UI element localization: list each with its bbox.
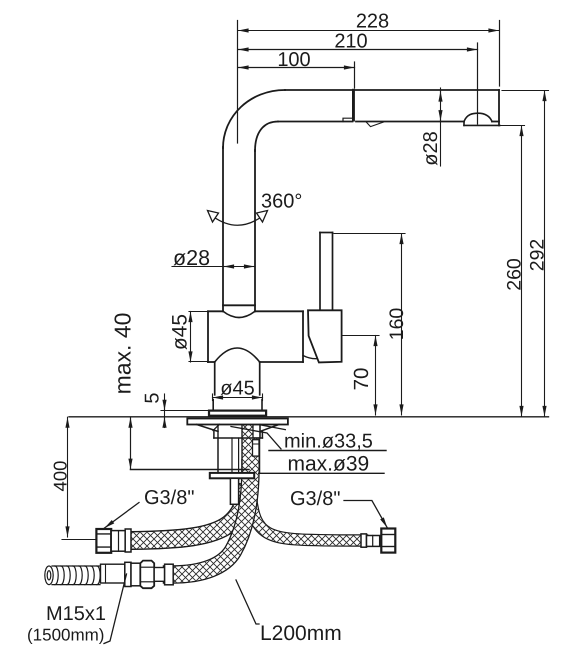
M15 collar [165, 564, 174, 585]
G3/8 left ferrule [125, 529, 131, 552]
countertop underside line [131, 469, 250, 471]
spout inner curve [255, 122, 278, 152]
skirt slant right [260, 425, 279, 432]
leader M15x1 [104, 574, 127, 644]
svg-text:400: 400 [50, 461, 71, 492]
shank through disk [218, 425, 260, 439]
svg-text:min.ø33,5: min.ø33,5 [284, 431, 373, 453]
sprayhead joint thick line [352, 89, 355, 122]
handle housing [308, 310, 342, 362]
skirt slant left [197, 425, 218, 432]
dim phi45 base [213, 394, 263, 401]
M15 hex nut [140, 561, 154, 589]
ext line 228 right [499, 21, 501, 87]
faucet base plate [209, 411, 266, 416]
underline max [259, 472, 384, 474]
dim 210 [238, 49, 478, 51]
svg-text:5: 5 [142, 392, 164, 403]
svg-text:70: 70 [350, 368, 373, 391]
underline min [269, 450, 386, 452]
svg-text:(1500mm): (1500mm) [27, 626, 104, 645]
saddle arc on body top [223, 311, 255, 317]
dim 228 [238, 30, 499, 32]
svg-text:max. 40: max. 40 [110, 313, 136, 395]
svg-text:ø45: ø45 [169, 314, 192, 350]
base column [215, 362, 260, 395]
spout right end cap [498, 90, 500, 125]
svg-text:L200mm: L200mm [260, 622, 342, 645]
ext line 210 right [477, 43, 479, 124]
countertop surface line [69, 416, 549, 418]
dim 260 [499, 126, 525, 417]
spout bottom edge [278, 121, 353, 123]
mounting nut under counter [210, 473, 254, 478]
hose column in shank [242, 425, 259, 474]
handle rod [320, 233, 333, 311]
dim phi28 horizontal at riser [172, 266, 255, 268]
base collar [213, 400, 262, 411]
intersection arc body bottom [215, 348, 260, 362]
clip under tube [343, 118, 352, 121]
hose left supply braided [131, 494, 246, 541]
set screw in shank [253, 425, 261, 457]
leader G3/8 left [105, 503, 140, 529]
ext line 100 right [354, 62, 356, 88]
leader min phi33.5 [231, 427, 281, 450]
svg-text:292: 292 [527, 239, 549, 272]
svg-text:210: 210 [334, 31, 367, 53]
G3/8 right ferrule [361, 534, 367, 547]
spout outer curve [223, 90, 285, 148]
svg-text:G3/8": G3/8" [144, 487, 194, 509]
svg-text:G3/8": G3/8" [290, 488, 340, 510]
leader L200mm [236, 580, 259, 624]
svg-text:ø28: ø28 [420, 131, 442, 165]
G3/8 right connector nut [381, 529, 395, 553]
svg-text:360°: 360° [261, 191, 302, 213]
M15 small cylinder [154, 568, 164, 582]
swivel arc 360 [208, 211, 268, 226]
svg-text:M15x1: M15x1 [46, 603, 106, 625]
dim 160 [334, 234, 405, 416]
svg-text:160: 160 [386, 308, 408, 341]
dim 70 [343, 336, 379, 416]
corrugated hose 1500mm [45, 566, 100, 585]
G3/8 left connector spacer [111, 531, 125, 552]
aerator dome [464, 113, 492, 121]
body horizontal cylinder [208, 311, 303, 362]
ext line spout axis [237, 21, 239, 144]
detail tick under tube [366, 122, 384, 127]
collar box under skirt [214, 431, 263, 438]
escutcheon disk on counter [187, 419, 288, 425]
svg-text:260: 260 [504, 258, 526, 291]
hose right supply braided [251, 498, 362, 541]
dim 100 [238, 67, 355, 69]
leader G3/8 right [344, 501, 387, 528]
dim phi45 body vertical [189, 312, 207, 363]
dim phi28 vertical at spout end [440, 88, 442, 166]
dim 400 [62, 417, 96, 539]
svg-text:228: 228 [356, 11, 389, 33]
threaded stud [230, 478, 238, 504]
svg-text:max.ø39: max.ø39 [288, 453, 370, 476]
tube joint line at body [223, 304, 255, 306]
spout top edge [285, 89, 499, 91]
dim 292 [502, 91, 549, 417]
dim max40 counter thickness [130, 417, 132, 469]
shank tube walls [218, 438, 260, 473]
svg-text:ø28: ø28 [173, 246, 210, 270]
handle housing bottom arc [303, 356, 317, 359]
M15 rings [125, 562, 131, 586]
svg-text:100: 100 [277, 49, 310, 71]
spout vertical tube [223, 147, 255, 311]
G3/8 left connector nut [96, 529, 111, 553]
G3/8 right connector spacer [367, 536, 380, 547]
spray face plate [464, 122, 500, 126]
svg-text:ø45: ø45 [220, 378, 254, 400]
dim 5 plate height [161, 394, 209, 428]
hose L200 spray braided [172, 468, 251, 575]
M15 smooth sleeve [101, 564, 125, 583]
